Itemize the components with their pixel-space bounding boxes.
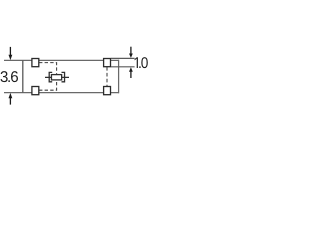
pad 3 top-right: [104, 59, 111, 67]
pad 1 top-left: [32, 59, 39, 67]
pad 2 bottom-left: [32, 87, 39, 95]
crystal X1 box: [51, 75, 61, 80]
body right edge: [118, 60, 120, 94]
body top edge + left extension line: [4, 59, 119, 61]
dim 1.0 top arrow: [130, 47, 132, 54]
dim 3.6 label: [0, 71, 17, 82]
crystal X1 right plate: [62, 72, 65, 81]
dimension line 3.6 vertical connector: [22, 60, 24, 92]
dim 3.6 bottom arrow: [9, 98, 11, 105]
dim 1.0 bottom arrow: [130, 71, 132, 78]
wire dashed from top-left pad: [39, 63, 57, 74]
dim 1.0 label: [135, 57, 148, 68]
wire dashed from bottom-left pad: [39, 81, 57, 91]
dim 1.0 extension bottom: [111, 66, 135, 68]
body bottom edge + left extension line: [4, 92, 119, 94]
crystal X1 left plate: [49, 72, 52, 81]
wire dashed between right pads: [106, 67, 108, 86]
dim 3.6 top arrow: [9, 47, 11, 55]
pad 4 bottom-right: [104, 87, 111, 95]
dim 1.0 extension top: [111, 57, 135, 59]
crystal X1 lead: [45, 76, 69, 78]
